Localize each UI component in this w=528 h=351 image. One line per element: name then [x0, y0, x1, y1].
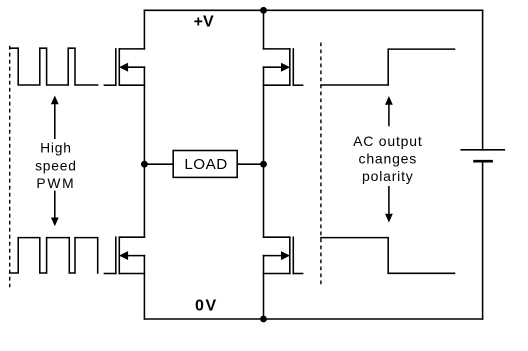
right dashed reference line [320, 43, 322, 287]
svg-text:AC output: AC output [353, 133, 422, 149]
transistor Q3 (bottom-left MOSFET) [104, 237, 144, 273]
wire left rail middle [143, 67, 145, 237]
wire 0V bottom rail [144, 318, 482, 320]
wire right bridge rail upper [263, 10, 265, 49]
wire load right [238, 163, 264, 165]
node bottom junction [260, 316, 267, 323]
wire load left [144, 163, 173, 165]
svg-text:speed: speed [35, 158, 77, 173]
AC output waveform top-right [321, 49, 455, 85]
load resistor LOAD box [173, 151, 237, 178]
PWM waveform top-left [10, 48, 98, 85]
svg-text:LOAD: LOAD [184, 156, 227, 173]
wire right bridge rail middle [263, 67, 265, 237]
wire left rail lower [143, 256, 145, 319]
left dashed reference line [9, 46, 11, 287]
svg-text:polarity: polarity [362, 168, 414, 184]
svg-text:High: High [40, 140, 72, 155]
svg-text:PWM: PWM [36, 176, 75, 191]
arrow up (left annotation) [51, 96, 59, 140]
transistor Q2 (top-right MOSFET) [264, 49, 303, 85]
wire right edge upper (to battery) [482, 10, 484, 150]
wire right edge lower (from battery) [482, 161, 484, 319]
transistor Q1 (top-left MOSFET) [104, 49, 144, 85]
battery B1 [460, 150, 505, 161]
svg-text:+V: +V [194, 14, 214, 31]
node top junction [260, 7, 267, 14]
svg-text:0V: 0V [195, 298, 218, 315]
arrow down (left annotation) [51, 191, 59, 227]
wire right bridge rail lower [263, 256, 265, 319]
transistor Q4 (bottom-right MOSFET) [264, 237, 303, 273]
node right load junction [260, 161, 267, 168]
AC output waveform bottom-right [321, 238, 455, 274]
PWM waveform bottom-left [10, 238, 98, 273]
arrow down (right annotation) [385, 186, 393, 223]
svg-text:changes: changes [359, 150, 418, 166]
wire +V top rail [144, 9, 482, 11]
wire left rail upper [143, 10, 145, 49]
node left load junction [141, 161, 148, 168]
arrow up (right annotation) [385, 96, 393, 126]
